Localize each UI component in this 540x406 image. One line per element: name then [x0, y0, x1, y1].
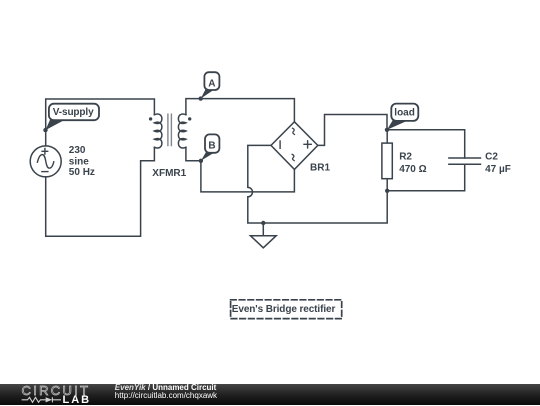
- svg-text:C2: C2: [485, 151, 498, 162]
- svg-text:load: load: [394, 107, 415, 118]
- svg-text:BR1: BR1: [310, 162, 330, 173]
- svg-text:R2: R2: [399, 151, 412, 162]
- svg-text:sine: sine: [69, 156, 89, 167]
- svg-text:470 Ω: 470 Ω: [399, 164, 426, 175]
- svg-text:A: A: [208, 78, 215, 89]
- svg-text:50 Hz: 50 Hz: [69, 167, 95, 178]
- svg-text:47 µF: 47 µF: [485, 164, 511, 175]
- svg-text:Even's Bridge rectifier: Even's Bridge rectifier: [232, 304, 336, 315]
- svg-text:V-supply: V-supply: [53, 107, 94, 118]
- svg-text:XFMR1: XFMR1: [152, 168, 186, 179]
- svg-text:230: 230: [69, 145, 86, 156]
- svg-text:B: B: [208, 141, 215, 152]
